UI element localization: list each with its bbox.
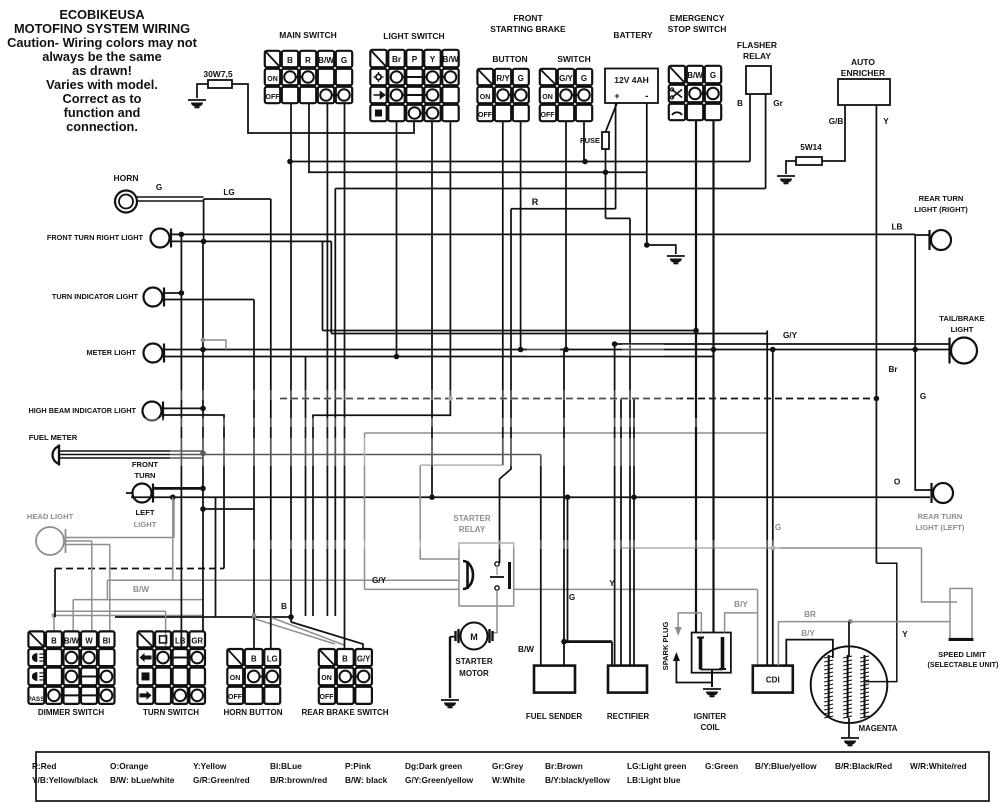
svg-text:B: B xyxy=(251,655,257,664)
svg-text:LIGHT: LIGHT xyxy=(134,520,157,529)
wire enricher G/B leg xyxy=(822,105,845,161)
wire R horizontal y=208.8 battery to starter relay xyxy=(511,208,616,210)
svg-text:B/R:Black/Red: B/R:Black/Red xyxy=(835,761,892,771)
lamp HEAD LIGHT grey xyxy=(27,497,174,631)
wire grey y=589.4 left of starter relay xyxy=(365,588,460,590)
wire LB horizontal y=234.4 front to rear turn light xyxy=(170,233,915,235)
svg-text:Br: Br xyxy=(392,55,402,64)
wire rectifier leg x=612 xyxy=(611,642,613,666)
wire horizontal y=617 xyxy=(115,616,291,618)
wire B/Y vertical x=767.2 to CDI xyxy=(766,331,768,666)
wire O long horizontal y=497.2 to rear turn light left xyxy=(131,496,930,498)
svg-text:SPARK PLUG: SPARK PLUG xyxy=(661,622,670,671)
wire horizontal y=509 xyxy=(203,508,254,510)
ground below 5W14 xyxy=(777,175,795,177)
svg-text:Y: Y xyxy=(430,55,436,64)
svg-text:HORN: HORN xyxy=(113,173,138,183)
svg-text:RELAY: RELAY xyxy=(743,51,771,61)
wire grey CDI drop x=757.6 xyxy=(757,589,759,665)
lamp REAR TURN LIGHT LEFT xyxy=(894,478,965,533)
wire G/Y horizontal y=330.5 xyxy=(323,330,697,332)
svg-text:function and: function and xyxy=(64,105,141,120)
wire brake switch G column x=584 xyxy=(583,122,585,162)
wire grey vertical x=172.8 xyxy=(172,497,174,580)
svg-text:COIL: COIL xyxy=(700,723,719,732)
wire horizontal y=344 to tail light xyxy=(615,343,950,345)
svg-text:FRONT TURN RIGHT LIGHT: FRONT TURN RIGHT LIGHT xyxy=(47,233,144,242)
wire flasher Gr leg x=765.6 xyxy=(765,94,767,189)
svg-text:B/W: B/W xyxy=(64,637,80,646)
wire horizontal y=241.4 xyxy=(170,240,331,242)
igniter coil xyxy=(692,633,731,733)
svg-text:M: M xyxy=(470,632,478,642)
wire button G column x=520.6 xyxy=(520,122,522,350)
svg-text:W:White: W:White xyxy=(492,775,525,785)
wire enricher Y vertical x=876.4 xyxy=(875,105,877,563)
svg-text:STARTING BRAKE: STARTING BRAKE xyxy=(490,24,566,34)
svg-text:REAR TURN: REAR TURN xyxy=(918,512,963,521)
wire button R/Y column x=502.8 xyxy=(502,122,504,465)
svg-text:ON: ON xyxy=(480,94,491,101)
switch REAR BRAKE SWITCH xyxy=(301,649,388,717)
wire stop switch B/W column x=695.2 xyxy=(695,121,697,632)
svg-text:G/Y: G/Y xyxy=(783,331,798,340)
svg-text:G: G xyxy=(775,523,781,532)
wire vertical x=253.8 horn button B xyxy=(252,613,257,618)
CDI unit xyxy=(753,666,793,693)
svg-text:R: R xyxy=(532,197,539,207)
svg-text:RELAY: RELAY xyxy=(459,525,486,534)
wire horizontal y=333.5 to CDI xyxy=(331,333,767,335)
svg-text:LIGHT (RIGHT): LIGHT (RIGHT) xyxy=(914,205,968,214)
svg-text:B: B xyxy=(287,56,293,65)
spark plug xyxy=(661,613,712,683)
wire main switch R column x=309 xyxy=(308,104,310,172)
svg-text:MOTOR: MOTOR xyxy=(459,669,489,678)
svg-text:as drawn!: as drawn! xyxy=(72,63,132,78)
svg-text:FRONT: FRONT xyxy=(132,460,159,469)
svg-text:STARTER: STARTER xyxy=(453,514,490,523)
svg-text:B/R:brown/red: B/R:brown/red xyxy=(270,775,327,785)
svg-text:B/W: B/W xyxy=(443,55,459,64)
svg-text:Y: Y xyxy=(902,630,908,639)
svg-text:B/W: B/W xyxy=(518,645,534,654)
svg-text:OFF: OFF xyxy=(541,112,556,119)
svg-text:B/W: B/W xyxy=(687,71,703,80)
svg-text:HIGH BEAM INDICATOR LIGHT: HIGH BEAM INDICATOR LIGHT xyxy=(28,406,136,415)
svg-text:B/W: bLue/white: B/W: bLue/white xyxy=(110,775,175,785)
wire vertical x=203 GR chain xyxy=(201,241,226,631)
svg-text:B/Y:Blue/yellow: B/Y:Blue/yellow xyxy=(755,761,817,771)
svg-text:ECOBIKEUSA: ECOBIKEUSA xyxy=(59,7,144,22)
svg-text:TURN INDICATOR LIGHT: TURN INDICATOR LIGHT xyxy=(52,292,139,301)
svg-text:connection.: connection. xyxy=(66,119,138,134)
svg-text:B/Y: B/Y xyxy=(801,629,815,638)
switch TURN SWITCH xyxy=(138,631,206,717)
wire rectifier feed x=634 xyxy=(633,399,635,666)
wire grey y=599.6 xyxy=(73,599,203,601)
svg-text:B/W: black: B/W: black xyxy=(345,775,388,785)
wire battery plus diagonal to fuse xyxy=(606,103,618,132)
svg-text:LG: LG xyxy=(223,188,234,197)
wire R vertical x=511 to starter relay xyxy=(500,209,512,563)
svg-text:ON: ON xyxy=(321,675,332,682)
relay STARTER RELAY xyxy=(453,514,513,606)
wire x=567.5 to rectifier jog xyxy=(567,497,569,641)
svg-text:G/Y: G/Y xyxy=(357,655,371,664)
wire grey horizontal y=548 to speed limit xyxy=(621,547,922,549)
fuel sender xyxy=(518,593,582,721)
svg-text:BR: BR xyxy=(804,610,816,619)
switch BUTTON (front starting brake) xyxy=(477,54,528,121)
wire light switch Y column x=432 xyxy=(431,122,433,497)
svg-text:LIGHT: LIGHT xyxy=(951,325,974,334)
battery 12V 4AH xyxy=(605,30,658,103)
svg-text:BUTTON: BUTTON xyxy=(492,54,527,64)
ground battery minus xyxy=(667,255,685,257)
wire G/Y long horizontal y=349.5 meter to tail light xyxy=(164,349,950,351)
svg-text:R: R xyxy=(305,56,311,65)
svg-text:OFF: OFF xyxy=(320,694,335,701)
wire grey G/Y vertical x=364.5 xyxy=(364,433,366,589)
ground starter motor xyxy=(441,699,459,701)
wire rectifier feed x=621 xyxy=(620,399,622,666)
svg-text:G: G xyxy=(341,56,347,65)
svg-text:Dg:Dark green: Dg:Dark green xyxy=(405,761,462,771)
svg-text:G: G xyxy=(518,74,524,83)
wire R/main horizontal y=172.3 xyxy=(308,171,647,173)
svg-text:FUSE: FUSE xyxy=(580,136,600,145)
svg-text:G/B: G/B xyxy=(829,117,844,126)
svg-text:Y:Yellow: Y:Yellow xyxy=(193,761,227,771)
svg-text:LIGHT (LEFT): LIGHT (LEFT) xyxy=(916,523,965,532)
svg-text:FUEL SENDER: FUEL SENDER xyxy=(526,712,583,721)
svg-text:CDI: CDI xyxy=(766,676,780,685)
svg-text:MAGENTA: MAGENTA xyxy=(859,724,898,733)
wire grey y=589.4 starter relay to CDI xyxy=(514,588,758,590)
wire grey horizontal y=433 xyxy=(365,432,768,434)
wire fuse chain x=605.5 xyxy=(605,149,607,218)
svg-text:G: G xyxy=(920,392,926,401)
wire LB rear leg x=915.2 xyxy=(915,234,931,490)
wire dashed horizontal y=568.5 xyxy=(55,568,224,570)
wire LG from horn xyxy=(204,188,271,649)
wire fuse step y=218.4 xyxy=(606,217,631,219)
svg-text:Caution- Wiring colors may not: Caution- Wiring colors may not xyxy=(7,35,197,50)
wire vertical x=181.4 LB to turn switch xyxy=(180,234,182,649)
wire grey y=611.3 xyxy=(55,610,166,612)
wire stop switch G column x=713 xyxy=(712,121,714,632)
svg-text:Gr:Grey: Gr:Grey xyxy=(492,761,524,771)
wire light switch Br column x=396.5 xyxy=(396,122,398,357)
svg-text:Gr: Gr xyxy=(773,99,783,108)
wire grey speed limit leg xyxy=(922,548,958,602)
svg-text:R/Y: R/Y xyxy=(496,74,510,83)
wire grey B/W bus y=580.2 xyxy=(107,579,459,581)
wire grey verticals bottom left xyxy=(52,569,166,650)
wire dashed horizontal y=398.5 xyxy=(280,398,876,400)
svg-text:OFF: OFF xyxy=(266,94,281,101)
svg-text:Varies with model.: Varies with model. xyxy=(46,77,158,92)
rectifier xyxy=(607,579,649,721)
switch LIGHT SWITCH xyxy=(370,31,458,121)
svg-text:P: P xyxy=(412,55,418,64)
svg-text:OFF: OFF xyxy=(228,694,243,701)
magneto MAGENTA xyxy=(811,646,898,733)
svg-text:+: + xyxy=(614,91,619,101)
fuel meter xyxy=(29,433,541,466)
svg-text:ON: ON xyxy=(267,76,278,83)
ground igniter coil xyxy=(703,670,721,697)
svg-text:Y: Y xyxy=(609,579,615,588)
wire grey diagonal to rear brake B xyxy=(252,618,335,644)
switch EMERGENCY STOP SWITCH xyxy=(668,13,727,120)
wire light switch P column x=414 xyxy=(232,84,414,133)
svg-text:always be the same: always be the same xyxy=(42,49,162,64)
wire vertical x=215.5 xyxy=(215,497,217,617)
svg-text:EMERGENCY: EMERGENCY xyxy=(670,13,725,23)
svg-text:G/Y: G/Y xyxy=(372,576,387,585)
svg-text:MOTOFINO SYSTEM WIRING: MOTOFINO SYSTEM WIRING xyxy=(14,21,190,36)
svg-text:B/W: B/W xyxy=(133,585,149,594)
svg-text:LB: LB xyxy=(892,223,903,232)
svg-text:B: B xyxy=(51,637,57,646)
switch MAIN SWITCH xyxy=(265,30,352,103)
svg-text:Br:Brown: Br:Brown xyxy=(545,761,583,771)
svg-text:B: B xyxy=(342,655,348,664)
fuse FUSE near battery xyxy=(580,132,609,149)
svg-text:TURN SWITCH: TURN SWITCH xyxy=(143,708,199,717)
wire light switch B/W column x=450.4 xyxy=(313,122,450,616)
svg-text:G/Y:Green/yellow: G/Y:Green/yellow xyxy=(405,775,474,785)
wire G vertical x=772.8 to CDI xyxy=(772,350,774,666)
svg-text:G/Y: G/Y xyxy=(559,74,573,83)
svg-text:SWITCH: SWITCH xyxy=(557,54,591,64)
svg-text:(SELECTABLE UNIT): (SELECTABLE UNIT) xyxy=(928,660,1000,669)
wire Y jog to magneto xyxy=(866,563,897,681)
lamp FRONT TURN LEFT LIGHT xyxy=(126,460,203,529)
wire fuel sender vertical x=540.8 xyxy=(540,455,542,666)
wire starter relay to motor grey xyxy=(493,590,497,633)
wire rectifier feed x=630 from fuse xyxy=(629,218,631,665)
svg-text:LG: LG xyxy=(267,655,278,664)
svg-text:30W7,5: 30W7,5 xyxy=(203,69,233,79)
wire grey BR to magneto xyxy=(778,610,950,666)
svg-text:FRONT: FRONT xyxy=(513,13,543,23)
svg-text:O:Orange: O:Orange xyxy=(110,761,149,771)
wire brake switch G/Y column x=566 xyxy=(565,122,567,350)
svg-text:PASS: PASS xyxy=(28,696,46,703)
svg-text:BATTERY: BATTERY xyxy=(613,30,653,40)
svg-text:STOP SWITCH: STOP SWITCH xyxy=(668,24,727,34)
wire hook x=331.3 xyxy=(330,241,332,333)
svg-text:AUTO: AUTO xyxy=(851,57,875,67)
svg-text:G:Green: G:Green xyxy=(705,761,738,771)
resistor 5W14 xyxy=(796,143,822,165)
wire Gr vertical x=335.3 xyxy=(334,189,336,617)
wire flasher B leg x=750 xyxy=(749,94,751,162)
wire diagonal to rear brake G/Y xyxy=(291,622,363,649)
wire thick jog y=641.6 xyxy=(564,640,612,643)
wire grey y=615.5 xyxy=(54,615,203,617)
svg-text:STARTER: STARTER xyxy=(455,657,492,666)
fuse 30W7,5 xyxy=(197,69,233,98)
lamp FRONT TURN RIGHT LIGHT xyxy=(47,229,171,248)
svg-text:W: W xyxy=(85,637,93,646)
wire main switch B column x=291 xyxy=(290,104,292,622)
wire grey horizontal y=465 start button to relay xyxy=(420,464,503,466)
wire battery minus ground jog xyxy=(647,245,676,254)
svg-text:Br: Br xyxy=(888,365,898,374)
svg-text:G/R:Green/red: G/R:Green/red xyxy=(193,775,250,785)
wire Gr horizontal y=188.5 flasher relay Gr xyxy=(335,188,765,190)
svg-text:G: G xyxy=(710,71,716,80)
svg-text:IGNITER: IGNITER xyxy=(694,712,727,721)
svg-text:Y/B:Yellow/black: Y/B:Yellow/black xyxy=(32,775,98,785)
svg-text:LB:Light blue: LB:Light blue xyxy=(627,775,681,785)
svg-text:OFF: OFF xyxy=(478,112,493,119)
label FRONT STARTING BRAKE xyxy=(490,13,566,34)
svg-text:RECTIFIER: RECTIFIER xyxy=(607,712,649,721)
label B/Y grey near igniter xyxy=(725,600,757,633)
svg-text:W/R:White/red: W/R:White/red xyxy=(910,761,967,771)
svg-text:B/Y: B/Y xyxy=(734,600,748,609)
svg-text:12V 4AH: 12V 4AH xyxy=(614,75,649,85)
svg-text:ENRICHER: ENRICHER xyxy=(841,68,885,78)
wire battery plus vertical x=615.6 xyxy=(615,103,617,209)
relay FLASHER RELAY xyxy=(737,40,784,108)
svg-text:REAR BRAKE SWITCH: REAR BRAKE SWITCH xyxy=(301,708,388,717)
svg-text:TURN: TURN xyxy=(134,471,155,480)
svg-text:G: G xyxy=(581,74,587,83)
svg-text:TAIL/BRAKE: TAIL/BRAKE xyxy=(939,314,984,323)
speed limit unit xyxy=(928,589,1000,670)
switch SWITCH (front starting brake) xyxy=(540,54,592,121)
svg-text:B/W: B/W xyxy=(318,56,334,65)
lamp HIGH BEAM INDICATOR LIGHT xyxy=(28,402,224,569)
lamp METER LIGHT xyxy=(87,344,164,363)
ground magneto xyxy=(841,718,859,746)
title text block xyxy=(7,7,197,134)
svg-text:GR: GR xyxy=(191,637,203,646)
svg-text:METER LIGHT: METER LIGHT xyxy=(87,348,137,357)
wire battery minus vertical x=646.8 xyxy=(646,103,648,245)
svg-text:ON: ON xyxy=(230,675,241,682)
svg-text:P:Pink: P:Pink xyxy=(345,761,371,771)
svg-text:Bl:BLue: Bl:BLue xyxy=(270,761,302,771)
wire grey B/Y to magneto xyxy=(786,629,833,665)
svg-text:-: - xyxy=(645,91,648,102)
svg-text:G: G xyxy=(156,183,162,192)
wire rear turn right stub xyxy=(915,234,929,236)
lamp TURN INDICATOR LIGHT xyxy=(52,288,254,649)
svg-text:DIMMER SWITCH: DIMMER SWITCH xyxy=(38,708,104,717)
wire hook x=322.5 xyxy=(322,241,324,330)
wire main switch G column x=344.5 xyxy=(344,104,346,649)
svg-text:B/Y:black/yellow: B/Y:black/yellow xyxy=(545,775,610,785)
svg-text:SPEED LIMIT: SPEED LIMIT xyxy=(938,650,986,659)
wire B horizontal y=161.5 main switch to flasher relay B xyxy=(290,161,750,163)
wire vertical x=305.5 xyxy=(305,357,307,617)
wire Y rectifier feed x=614.6 xyxy=(614,344,616,666)
svg-text:B: B xyxy=(281,602,287,611)
wire grey diagonal second xyxy=(270,617,344,645)
switch DIMMER SWITCH xyxy=(28,631,115,717)
svg-text:G: G xyxy=(569,593,575,602)
scan watermark band xyxy=(140,344,780,549)
svg-text:B: B xyxy=(737,99,743,108)
svg-text:REAR TURN: REAR TURN xyxy=(919,194,964,203)
svg-text:HEAD LIGHT: HEAD LIGHT xyxy=(27,512,74,521)
svg-text:LB: LB xyxy=(175,637,186,646)
lamp TAIL/BRAKE LIGHT xyxy=(783,314,985,401)
legend color code table xyxy=(32,752,989,801)
svg-text:Correct as to: Correct as to xyxy=(63,91,142,106)
svg-text:MAIN SWITCH: MAIN SWITCH xyxy=(279,30,337,40)
svg-text:FLASHER: FLASHER xyxy=(737,40,777,50)
svg-text:LIGHT SWITCH: LIGHT SWITCH xyxy=(383,31,444,41)
svg-text:LG:Light green: LG:Light green xyxy=(627,761,686,771)
wire fuel sender feed x=564 xyxy=(563,350,565,666)
svg-text:R:Red: R:Red xyxy=(32,761,56,771)
svg-text:5W14: 5W14 xyxy=(800,143,822,152)
ground below 30W7,5 fuse xyxy=(188,99,206,101)
svg-text:Y: Y xyxy=(883,117,889,126)
svg-text:Bl: Bl xyxy=(103,637,111,646)
switch HORN BUTTON xyxy=(224,649,283,717)
wire 5W14 to ground xyxy=(786,161,796,174)
motor STARTER MOTOR xyxy=(450,623,493,699)
horn xyxy=(113,173,203,213)
svg-text:HORN BUTTON: HORN BUTTON xyxy=(224,708,283,717)
wire horizontal y=356.5 from meter light xyxy=(164,356,714,358)
svg-text:FUEL METER: FUEL METER xyxy=(29,433,78,442)
wire grey vertical x=420.2 xyxy=(420,465,459,559)
svg-text:O: O xyxy=(894,478,901,487)
auto enricher xyxy=(829,57,890,126)
svg-text:ON: ON xyxy=(542,94,553,101)
lamp REAR TURN LIGHT RIGHT xyxy=(892,194,969,250)
svg-text:LEFT: LEFT xyxy=(136,508,155,517)
wire main switch B/W column x=327.4 xyxy=(326,104,328,616)
